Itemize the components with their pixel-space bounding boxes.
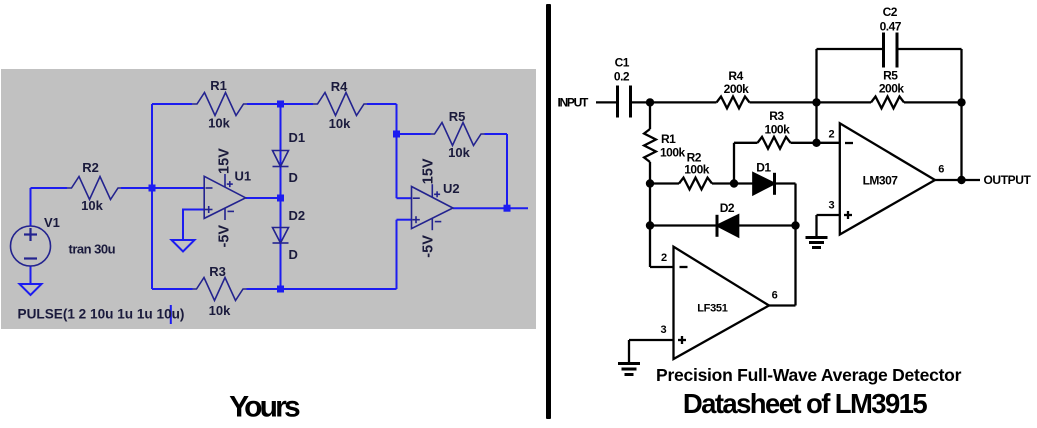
svg-text:R3: R3 bbox=[209, 264, 226, 279]
svg-text:D: D bbox=[289, 247, 298, 262]
svg-text:D1: D1 bbox=[756, 161, 771, 175]
svg-text:R5: R5 bbox=[883, 69, 898, 83]
svg-text:6: 6 bbox=[938, 164, 944, 176]
svg-text:R3: R3 bbox=[769, 109, 784, 123]
svg-text:6: 6 bbox=[772, 290, 778, 302]
svg-text:10k: 10k bbox=[81, 198, 103, 213]
svg-text:10k: 10k bbox=[208, 116, 230, 131]
svg-text:D: D bbox=[289, 170, 298, 185]
svg-text:C2: C2 bbox=[883, 5, 898, 19]
svg-text:Datasheet of LM3915: Datasheet of LM3915 bbox=[683, 388, 927, 419]
svg-text:PULSE(1 2 10u 1u 1u 10u): PULSE(1 2 10u 1u 1u 10u) bbox=[18, 307, 185, 322]
svg-text:0.2: 0.2 bbox=[614, 70, 630, 84]
svg-text:R2: R2 bbox=[82, 160, 99, 175]
svg-text:200k: 200k bbox=[879, 82, 905, 96]
svg-text:R4: R4 bbox=[728, 69, 743, 83]
svg-text:0.47: 0.47 bbox=[880, 20, 902, 34]
svg-text:LM307: LM307 bbox=[863, 174, 899, 188]
svg-text:-5V: -5V bbox=[217, 225, 233, 248]
svg-text:tran 30u: tran 30u bbox=[69, 242, 116, 257]
svg-text:2: 2 bbox=[661, 252, 667, 264]
svg-text:Yours: Yours bbox=[229, 391, 300, 424]
svg-text:D1: D1 bbox=[289, 130, 306, 145]
svg-text:10k: 10k bbox=[448, 145, 470, 160]
svg-text:100k: 100k bbox=[660, 146, 686, 160]
svg-text:D2: D2 bbox=[720, 201, 735, 215]
svg-text:Precision Full-Wave Average De: Precision Full-Wave Average Detector bbox=[656, 365, 962, 385]
svg-text:2: 2 bbox=[829, 129, 835, 141]
svg-text:C1: C1 bbox=[615, 56, 630, 70]
svg-text:15V: 15V bbox=[421, 158, 437, 184]
svg-text:R1: R1 bbox=[210, 78, 227, 93]
svg-text:R1: R1 bbox=[661, 132, 676, 146]
svg-text:10k: 10k bbox=[209, 303, 231, 318]
svg-text:100k: 100k bbox=[765, 123, 791, 137]
svg-text:15V: 15V bbox=[217, 148, 233, 174]
svg-text:100k: 100k bbox=[684, 163, 710, 177]
svg-text:OUTPUT: OUTPUT bbox=[984, 173, 1032, 187]
svg-text:LF351: LF351 bbox=[697, 303, 727, 315]
svg-text:200k: 200k bbox=[724, 82, 750, 96]
svg-text:R4: R4 bbox=[331, 79, 348, 94]
svg-text:INPUT: INPUT bbox=[558, 96, 589, 110]
svg-text:V1: V1 bbox=[44, 215, 60, 230]
svg-text:3: 3 bbox=[661, 324, 667, 336]
svg-text:-5V: -5V bbox=[421, 235, 437, 258]
svg-text:R5: R5 bbox=[449, 109, 466, 124]
svg-text:3: 3 bbox=[829, 200, 835, 212]
svg-text:D2: D2 bbox=[289, 208, 306, 223]
svg-text:U2: U2 bbox=[443, 181, 460, 196]
svg-text:U1: U1 bbox=[235, 169, 252, 184]
svg-text:10k: 10k bbox=[329, 116, 351, 131]
